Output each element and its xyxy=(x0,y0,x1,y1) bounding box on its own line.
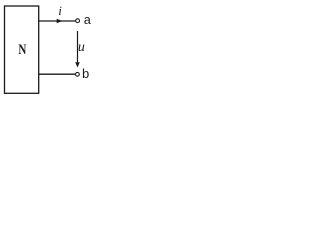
voltage u arrow shaft (a to b) xyxy=(77,31,79,64)
current arrowhead on top wire xyxy=(57,19,63,24)
terminal b circle xyxy=(76,72,80,76)
voltage u arrowhead xyxy=(75,62,80,67)
svg-text:u: u xyxy=(78,40,85,55)
terminal a circle xyxy=(76,19,80,23)
label N xyxy=(18,42,27,58)
svg-text:b: b xyxy=(82,67,90,82)
svg-text:a: a xyxy=(84,13,92,28)
two-terminal network box N xyxy=(5,6,39,93)
wire top (box to terminal a) xyxy=(39,20,76,22)
wire bottom (box to terminal b) xyxy=(39,73,76,75)
svg-text:N: N xyxy=(18,42,27,58)
svg-text:i: i xyxy=(58,3,62,18)
